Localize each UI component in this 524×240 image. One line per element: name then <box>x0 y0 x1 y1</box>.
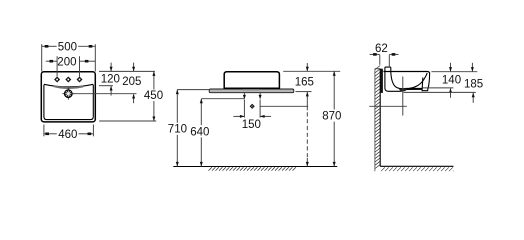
dim 165 arrow top <box>306 63 309 71</box>
basin under shadow <box>243 89 259 91</box>
ext line top right <box>431 71 477 73</box>
drain centre ext line <box>72 93 136 95</box>
drain vertical centreline <box>402 76 404 115</box>
svg-text:205: 205 <box>122 76 141 88</box>
basin rim top <box>383 72 429 74</box>
drain <box>62 88 74 100</box>
svg-text:62: 62 <box>375 43 388 55</box>
basin bottom <box>398 89 423 91</box>
ext line top right <box>283 70 340 72</box>
svg-text:165: 165 <box>295 77 314 89</box>
svg-text:120: 120 <box>101 74 120 86</box>
dim 185 bottom ext line <box>404 91 476 93</box>
shelf bottom ext line <box>296 91 312 93</box>
basin inner wall <box>44 85 93 120</box>
drop line to floor <box>306 106 309 166</box>
tap hole middle <box>65 77 71 83</box>
dim 140 arrow top <box>449 63 452 72</box>
dim 500 ext line right <box>94 44 96 71</box>
dim 62 ext left <box>379 55 381 65</box>
basin box <box>224 72 279 89</box>
drain diamond <box>250 104 254 108</box>
dim 200 line <box>46 56 95 76</box>
dim 62 line <box>370 53 399 56</box>
svg-text:870: 870 <box>322 111 341 123</box>
ext line left to 710 <box>177 89 209 91</box>
wall hatch strip <box>375 66 380 172</box>
svg-text:460: 460 <box>58 129 77 141</box>
wall top tick <box>375 68 380 70</box>
mounting bar <box>380 69 383 93</box>
dim 640 line <box>200 99 203 167</box>
dim 165 arrow bottom <box>306 92 309 106</box>
svg-text:140: 140 <box>442 75 461 87</box>
svg-text:640: 640 <box>190 126 209 138</box>
dim 185 arrow top <box>471 63 474 72</box>
basin outer square <box>41 72 95 122</box>
wall face line <box>379 69 381 167</box>
tap hole bump <box>385 67 391 71</box>
svg-text:185: 185 <box>464 78 483 90</box>
drain line right <box>260 105 308 107</box>
floor hatch <box>381 167 454 171</box>
floor line <box>380 165 453 167</box>
floor hatching <box>209 167 296 170</box>
ext line top right <box>99 70 155 72</box>
svg-text:710: 710 <box>168 124 187 136</box>
dim 205 arrow top <box>132 63 135 72</box>
bowl inner profile <box>391 72 427 89</box>
svg-text:450: 450 <box>144 90 163 102</box>
dim 460 ext lines <box>43 125 45 137</box>
dim 120 arrow top <box>110 63 113 72</box>
bowl rim curve <box>44 84 93 87</box>
svg-text:500: 500 <box>58 42 77 54</box>
dim 150 arrows <box>233 115 271 118</box>
basin back edge <box>385 72 398 92</box>
dim 140 bottom ext line <box>423 87 454 89</box>
tick right 150 <box>259 100 261 118</box>
dim 62 ext right <box>388 55 390 68</box>
ext line 640 top <box>201 98 244 100</box>
dim 205 arrow bottom <box>132 94 135 103</box>
dim 870 line <box>333 71 336 166</box>
outer right edge <box>428 73 430 89</box>
counter shelf <box>209 89 294 93</box>
dim 450 line <box>152 71 155 121</box>
tap hole right <box>77 77 83 83</box>
ext line bottom right <box>99 120 156 122</box>
drain boss <box>399 89 408 92</box>
dim 185 arrow bottom <box>472 93 475 103</box>
svg-text:200: 200 <box>57 56 76 68</box>
outlet notch <box>422 89 428 91</box>
dim 140 arrow bottom <box>449 88 452 98</box>
tap hole left <box>54 77 60 83</box>
bowl hidden bottom line <box>405 87 422 89</box>
dim 120 arrow bottom <box>110 86 113 96</box>
inner right wall <box>421 78 424 90</box>
dim 120 bottom line <box>99 85 113 87</box>
dim 500 line <box>42 45 96 48</box>
tick left 150 <box>243 100 245 118</box>
floor line <box>173 166 337 168</box>
drain horizontal centreline <box>369 105 407 107</box>
rim shadow <box>54 86 83 88</box>
dim 710 line <box>176 90 179 167</box>
arrow down onto left tick <box>243 93 246 100</box>
arrow down onto right tick <box>259 93 262 100</box>
dim 500 ext line left <box>41 44 43 71</box>
svg-text:150: 150 <box>242 119 261 131</box>
dim 460 line <box>44 133 94 136</box>
